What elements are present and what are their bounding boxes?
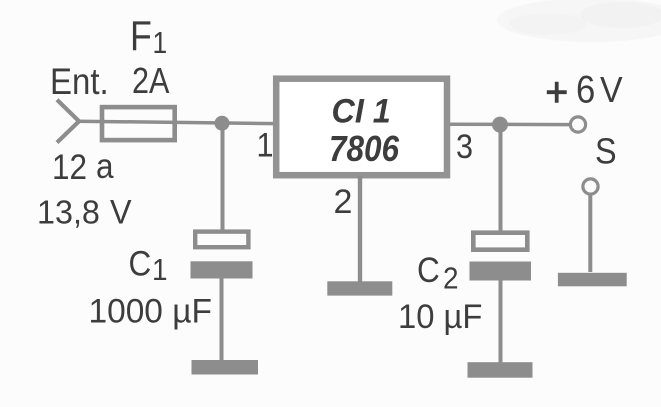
wire: IC pin 3 to +6V terminal: [448, 122, 571, 126]
wire: C2 to ground: [499, 280, 503, 363]
svg-text:12: 12: [52, 149, 87, 188]
svg-text:C: C: [129, 245, 152, 284]
svg-text:a: a: [96, 148, 114, 187]
svg-text:2: 2: [443, 261, 459, 296]
junction node A (fuse / pin 1 / C1): [215, 116, 230, 131]
input connector (Ent.): [57, 100, 79, 143]
output terminal +6V: [570, 117, 585, 132]
label + 6 V: [547, 82, 567, 103]
scan smudge top-right: [497, 0, 661, 42]
wire: S terminal to ground: [588, 194, 592, 272]
svg-text:1: 1: [152, 253, 168, 288]
svg-text:V: V: [110, 194, 132, 232]
wire: input chevron to IC pin 1: [76, 121, 276, 123]
svg-text:F: F: [130, 13, 152, 59]
svg-text:C: C: [417, 252, 440, 291]
svg-text:6: 6: [576, 68, 595, 111]
ground (C2): [468, 362, 533, 378]
svg-text:10 µF: 10 µF: [398, 298, 482, 336]
svg-text:2: 2: [334, 183, 353, 221]
capacitor C2 (electrolytic): [473, 233, 527, 250]
capacitor C1 (electrolytic): [195, 232, 248, 248]
ground (C1): [192, 360, 259, 375]
svg-text:2A: 2A: [132, 62, 170, 102]
svg-text:1000 µF: 1000 µF: [89, 292, 212, 331]
terminal S: [583, 179, 598, 194]
svg-text:V: V: [600, 70, 623, 110]
ground (pin 2): [327, 281, 392, 295]
regulator IC CI1 (7806): [276, 79, 447, 176]
wire: pin 2 to ground: [358, 176, 362, 282]
svg-text:3: 3: [456, 128, 473, 166]
svg-text:1: 1: [257, 126, 274, 164]
svg-text:13,8: 13,8: [37, 193, 100, 230]
svg-text:S: S: [595, 132, 617, 172]
fuse F1: [102, 107, 175, 140]
junction node B (pin 3 / C2 / output): [492, 117, 508, 133]
svg-text:1: 1: [153, 26, 168, 60]
svg-text:Ent.: Ent.: [50, 61, 109, 102]
svg-text:CI 1: CI 1: [332, 93, 391, 131]
wire: C1 to ground: [220, 278, 224, 361]
svg-text:7806: 7806: [329, 129, 399, 169]
ground (S): [558, 273, 627, 287]
wire: node A down to C1: [221, 123, 225, 231]
wire: node B down to C2: [499, 124, 503, 232]
